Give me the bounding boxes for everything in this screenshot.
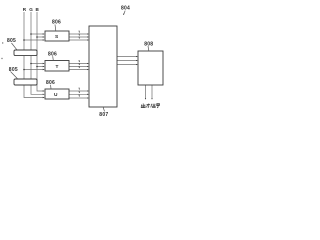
wire G vertical xyxy=(31,12,44,94)
speck noise 1 xyxy=(2,42,3,43)
tick T out top xyxy=(78,60,80,62)
tick T out middle xyxy=(78,63,80,65)
wire S output middle xyxy=(69,36,88,38)
svg-text:G: G xyxy=(29,7,33,12)
svg-text:807: 807 xyxy=(99,112,108,118)
tick S out middle xyxy=(78,34,80,36)
speck noise 2 xyxy=(1,58,2,59)
svg-text:B: B xyxy=(36,7,40,12)
tick U out bottom xyxy=(78,95,80,97)
leader 806 S xyxy=(54,25,57,31)
junction T-R xyxy=(23,69,25,71)
junction S-G xyxy=(30,33,32,35)
wire T input bottom xyxy=(24,69,44,71)
svg-text:U: U xyxy=(54,92,58,98)
char 信 xyxy=(151,104,156,108)
leader 807 xyxy=(103,107,104,111)
svg-text:T: T xyxy=(56,64,59,70)
svg-text:806: 806 xyxy=(48,52,57,58)
svg-text:806: 806 xyxy=(46,80,55,86)
tick S out bottom xyxy=(78,37,80,39)
wire 807 to 808 top xyxy=(117,56,137,58)
wire 808 output left down xyxy=(145,85,147,99)
leader 808 xyxy=(147,46,150,51)
wire S output bottom xyxy=(69,39,88,41)
wire T input top xyxy=(31,63,44,65)
tick T out bottom xyxy=(78,66,80,68)
svg-text:806: 806 xyxy=(52,20,61,26)
wire U output middle xyxy=(69,93,88,95)
wire B vertical xyxy=(37,12,44,91)
leader 806 T xyxy=(52,56,55,60)
wire T output top xyxy=(69,63,88,65)
svg-text:805: 805 xyxy=(9,67,18,73)
tick S out top xyxy=(78,31,80,33)
leader 806 U xyxy=(50,85,53,89)
tick U out middle xyxy=(78,91,80,93)
leader 805 lower xyxy=(11,72,18,79)
wire U output bottom xyxy=(69,97,88,99)
char 出 xyxy=(141,104,145,108)
wire T output bottom xyxy=(69,69,88,71)
wire 808 output right down xyxy=(151,85,153,99)
box T xyxy=(45,61,69,72)
wire U output top xyxy=(69,90,88,92)
box 805 upper rounded xyxy=(14,50,37,56)
box 805 lower rounded xyxy=(14,79,37,85)
wire S output top xyxy=(69,33,88,35)
wire S input top xyxy=(31,33,44,35)
wire R vertical xyxy=(24,12,44,98)
leader 805 upper xyxy=(12,43,17,50)
junction T-G xyxy=(30,63,32,65)
tick U out top xyxy=(78,88,80,90)
svg-text:R: R xyxy=(23,7,27,12)
svg-text:808: 808 xyxy=(144,42,153,48)
wire T input middle xyxy=(37,66,44,68)
wire S input bottom xyxy=(24,39,44,41)
wire S input middle xyxy=(37,36,44,38)
junction S-B xyxy=(36,36,38,38)
svg-text:804: 804 xyxy=(121,5,130,11)
junction S-R xyxy=(23,39,25,41)
wire 807 to 808 bottom xyxy=(117,64,137,66)
junction T-B xyxy=(36,66,38,68)
char 号 xyxy=(156,104,160,108)
char 力 xyxy=(147,104,151,108)
box S xyxy=(45,31,69,41)
box 807 tall xyxy=(89,26,117,107)
box U xyxy=(45,89,69,99)
wire T output middle xyxy=(69,66,88,68)
text 出力信号 output signal xyxy=(141,104,160,108)
svg-text:805: 805 xyxy=(7,38,16,44)
box 808 xyxy=(138,51,163,85)
leader arrow 804 xyxy=(123,11,125,15)
wire 807 to 808 middle xyxy=(117,60,137,62)
